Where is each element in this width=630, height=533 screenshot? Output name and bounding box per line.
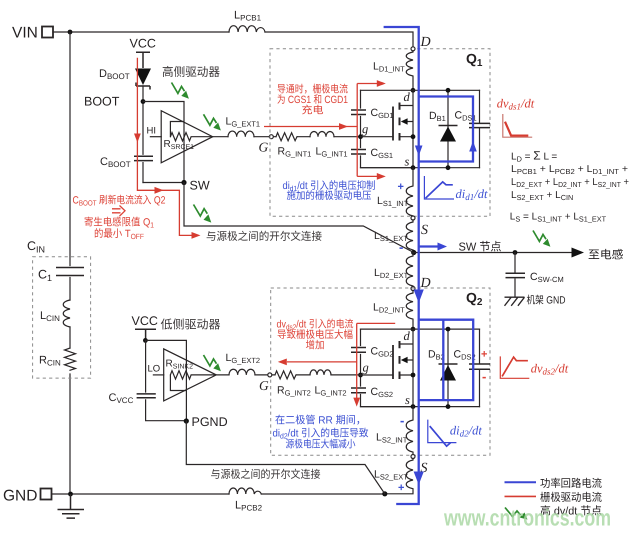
arrow blue big down Q2 top <box>414 290 424 304</box>
svg-text:充电: 充电 <box>302 105 325 117</box>
inductor LGINT2 <box>310 370 347 398</box>
node G1 <box>269 135 273 139</box>
wire Q2 cap branch <box>361 329 414 407</box>
inductor LS1INT <box>377 168 413 216</box>
wire red Q1 gate loop <box>264 84 377 177</box>
arrow green zigzag 1 <box>172 83 189 99</box>
node VCC2 junction <box>143 338 148 343</box>
text red note q2 dv CJK <box>277 319 354 352</box>
node S2-GND junction <box>382 491 387 496</box>
legend high dv/dt node <box>505 508 528 520</box>
arrow red left gate2 <box>278 359 287 366</box>
terminal GND <box>3 488 52 505</box>
wire blue main power line <box>384 27 419 504</box>
svg-text:SW: SW <box>190 179 210 193</box>
svg-text:-: - <box>400 413 404 428</box>
capacitor C1 <box>38 268 84 284</box>
inductor LS2EXT <box>374 459 413 494</box>
op-amp driver1 triangle <box>161 111 213 163</box>
node d2b <box>446 327 451 332</box>
arrow red right cgd1 <box>377 80 386 87</box>
svg-text:至电感: 至电感 <box>588 249 624 262</box>
capacitor CGD1 <box>351 107 394 120</box>
svg-text:s: s <box>405 155 410 169</box>
wire driver2 frame <box>145 340 186 421</box>
inductor LCIN <box>40 300 70 327</box>
node s2 <box>411 404 416 409</box>
box Q2 dashed <box>271 288 490 455</box>
wire SW node rail <box>414 252 573 254</box>
arrow blue down Q1 <box>415 146 423 157</box>
node d1 <box>411 88 416 93</box>
icon waveform did2/dt <box>428 420 483 447</box>
inductor LGEXT2 <box>226 352 261 375</box>
node VIN junction <box>68 30 73 35</box>
capacitor CBOOT <box>100 156 153 169</box>
wire left branch VIN down <box>69 32 71 494</box>
text equations LD <box>510 149 629 224</box>
arrow blue SW node <box>419 245 439 247</box>
resistor RGINT1 <box>276 133 311 159</box>
wire DBOOT to CBOOT branch <box>142 86 144 183</box>
svg-text:与源极之间的开尔文连接: 与源极之间的开尔文连接 <box>206 230 322 243</box>
wire GND rail right <box>261 493 385 495</box>
node SW-S junction <box>411 250 416 255</box>
transistor Q2 MOSFET <box>361 329 416 407</box>
node D open circle <box>411 47 415 51</box>
node SW <box>181 180 186 185</box>
svg-text:D: D <box>420 276 431 291</box>
svg-text:D: D <box>420 35 431 50</box>
svg-text:功率回路电流: 功率回路电流 <box>540 477 602 490</box>
node S1 open circle <box>411 216 415 220</box>
node d1b <box>446 88 451 93</box>
svg-text:www.cntronics.com: www.cntronics.com <box>443 505 611 531</box>
wire driver1 frame <box>143 102 184 183</box>
wire kelvin2 PGND to S2 <box>186 421 384 494</box>
ground chassis symbol <box>505 297 525 306</box>
wire red CBOOT refresh path <box>137 58 193 236</box>
resistor RCIN <box>39 348 76 370</box>
arrow blue up Q1 loop <box>469 141 477 152</box>
capacitor CGS2 <box>351 386 393 399</box>
node g1 <box>358 134 363 139</box>
transistor Q1 MOSFET <box>361 90 416 167</box>
text blue note q2 CJK <box>273 415 369 451</box>
node d2 <box>411 327 416 332</box>
arrow red right kelvin1 <box>192 232 201 239</box>
resistor RGINT2 <box>275 371 311 398</box>
arrow blue big down S2 <box>414 472 424 485</box>
arrow red right cgs1 <box>377 173 386 180</box>
svg-text:栅极驱动电流: 栅极驱动电流 <box>540 491 602 504</box>
diode DB2 <box>428 329 458 407</box>
arrow green zigzag 3 <box>194 205 212 223</box>
arrow red right gate1 <box>339 123 348 130</box>
wire gate row 2 <box>216 374 360 376</box>
resistor RSRCE1 <box>164 122 213 152</box>
diode DBOOT schottky <box>99 68 151 90</box>
legend gate drive current <box>505 495 537 497</box>
svg-text:LO: LO <box>148 364 161 375</box>
svg-text:+: + <box>481 349 487 361</box>
ground symbol <box>58 494 85 518</box>
capacitor CSWCM <box>506 253 564 297</box>
op-amp driver2 triangle <box>164 349 217 401</box>
node D2 open circle <box>411 287 415 291</box>
svg-text:在二极管 RR 期间，: 在二极管 RR 期间， <box>275 415 366 427</box>
inductor LD2EXT <box>374 253 413 287</box>
wire HI stub <box>150 136 161 138</box>
svg-text:g: g <box>363 361 369 375</box>
inductor LGINT1 <box>310 132 348 159</box>
arrow red down DBOOT <box>134 134 141 143</box>
wire blue loop Q2 <box>419 320 474 400</box>
resistor RSINK2 <box>166 359 216 391</box>
diode DB1 <box>429 90 458 167</box>
inductor LPCB2 <box>229 488 263 513</box>
node S2 open circle <box>411 455 415 459</box>
capacitor CGD2 <box>351 346 394 359</box>
inductor LD2INT <box>373 291 413 330</box>
icon waveform dvds1/dt <box>497 97 535 138</box>
legend power loop current <box>505 481 537 483</box>
svg-text:d: d <box>404 90 411 104</box>
inductor LD1INT <box>373 51 413 90</box>
node g2 <box>358 373 363 378</box>
svg-text:G: G <box>259 378 269 393</box>
capacitor CGS1 <box>351 147 393 160</box>
box Q1 dashed <box>270 49 490 217</box>
node GND junction <box>68 492 73 497</box>
capacitor CDS2 <box>454 329 491 407</box>
svg-text:+: + <box>398 482 404 494</box>
svg-text:施加的栅极驱动电压: 施加的栅极驱动电压 <box>287 190 372 202</box>
wire blue loop Q1 <box>419 97 473 162</box>
wire top rail to D column <box>265 32 413 47</box>
inductor LS2INT <box>376 407 413 455</box>
icon waveform dvds2/dt <box>500 356 568 378</box>
svg-text:机架 GND: 机架 GND <box>527 295 566 307</box>
svg-text:-: - <box>482 369 486 384</box>
arrow red down cgs2 <box>353 398 360 407</box>
svg-text:g: g <box>362 122 368 136</box>
wire VCC2 bar <box>135 329 156 340</box>
svg-text:-: - <box>399 240 403 255</box>
svg-text:与源极之间的开尔文连接: 与源极之间的开尔文连接 <box>211 468 321 481</box>
wire Q1 cap branch <box>361 90 414 167</box>
wire gate row 1 <box>213 136 361 138</box>
inductor LGEXT1 <box>226 116 261 137</box>
svg-text:VIN: VIN <box>12 25 38 42</box>
svg-text:+: + <box>398 181 404 193</box>
wire kelvin1 SW to S <box>184 183 414 253</box>
node CSWCM junction <box>513 250 518 255</box>
arrow to inductor <box>572 248 585 258</box>
inductor LPCB1 <box>229 10 265 33</box>
svg-text:低侧驱动器: 低侧驱动器 <box>161 318 221 332</box>
svg-text:HI: HI <box>147 126 157 137</box>
node G2 <box>268 373 272 377</box>
text red note q1 charge CJK <box>277 84 348 117</box>
svg-text:BOOT: BOOT <box>84 95 120 109</box>
arrow green zigzag 5 <box>533 231 550 247</box>
svg-text:s: s <box>405 393 410 407</box>
capacitor CDS1 <box>455 90 491 167</box>
svg-text:PGND: PGND <box>192 415 228 429</box>
arrow green zigzag 2 <box>204 114 221 130</box>
svg-text:源极电压大幅减小: 源极电压大幅减小 <box>286 439 356 451</box>
svg-text:VCC: VCC <box>132 314 158 328</box>
box CIN dashed <box>33 257 91 378</box>
wire VCC bar <box>136 52 150 68</box>
arrow green zigzag 4 <box>204 355 221 371</box>
wire LO stub <box>153 374 163 376</box>
wire d1 row <box>361 89 480 91</box>
wire d2 row <box>361 328 480 330</box>
wire VIN to top rail <box>53 31 229 33</box>
node s1 <box>411 165 416 170</box>
svg-text:高侧驱动器: 高侧驱动器 <box>162 65 220 79</box>
icon waveform did1/dt <box>424 176 488 202</box>
wire red Q2 gate loop <box>287 323 395 398</box>
arrow red right CBOOT <box>155 187 164 194</box>
capacitor CVCC <box>109 392 156 405</box>
inductor LS1EXT <box>374 220 413 253</box>
wire GND rail <box>52 493 230 495</box>
terminal VIN <box>12 25 53 42</box>
svg-text:d: d <box>404 329 411 343</box>
node BOOT <box>141 99 146 104</box>
node PGND <box>184 418 189 423</box>
svg-text:G: G <box>259 140 269 155</box>
wire s1 row <box>361 167 480 169</box>
text red note cboot CJK <box>73 195 166 241</box>
text blue note q1 CJK <box>283 180 376 202</box>
svg-text:S: S <box>421 223 428 238</box>
svg-text:增加: 增加 <box>306 339 325 351</box>
svg-text:VCC: VCC <box>130 37 156 51</box>
svg-text:GND: GND <box>3 488 37 505</box>
svg-text:SW 节点: SW 节点 <box>459 241 502 254</box>
wire s2 row <box>361 406 480 408</box>
